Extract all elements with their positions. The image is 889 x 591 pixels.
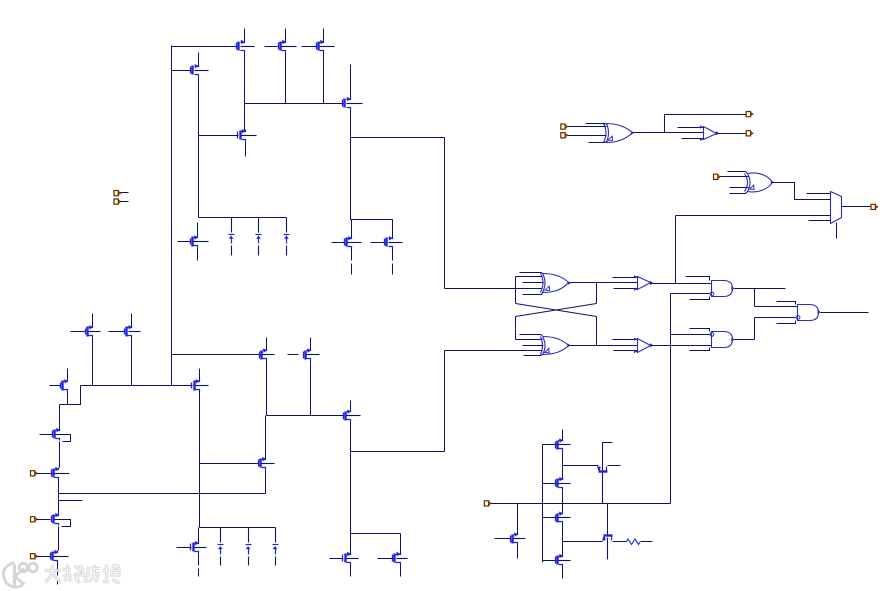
wire M16 source down through bus H6 to bus H8 bbox=[350, 422, 352, 534]
pin P7 bbox=[561, 133, 568, 138]
wire feedback column vertical bbox=[670, 294, 672, 504]
wire Ms3 gate bbox=[543, 517, 557, 519]
transistor M16 bbox=[344, 410, 361, 422]
wire A3 input3 bbox=[755, 317, 796, 319]
wire M19 source to M20 drain bbox=[58, 527, 60, 551]
wire latch right column upper bbox=[596, 283, 598, 304]
wire A3 input1 stub bbox=[777, 302, 796, 305]
wire H1 to M1 gate bbox=[172, 46, 238, 48]
wire M20 source dash bbox=[57, 579, 59, 585]
wire M6 drain stub bbox=[350, 65, 352, 98]
and-gate A1 bbox=[710, 281, 735, 297]
transistor M19 bbox=[52, 513, 60, 526]
wire U5 output to and gate A2 bbox=[651, 345, 712, 347]
wire M21 source stub bbox=[198, 554, 200, 566]
wire U7 output jog to mux bbox=[773, 183, 831, 200]
mos-cap C3 bbox=[284, 218, 290, 256]
transistor M3 bbox=[317, 40, 335, 53]
wire M14 source jog to bus H4 bbox=[68, 386, 81, 405]
wire U8 input4 stub bbox=[809, 220, 831, 222]
wire Ms5 right lead stub bbox=[608, 465, 621, 467]
wire vertical to pair bus bbox=[350, 138, 352, 220]
transistor M10 bbox=[86, 325, 101, 337]
wire M8 drain from pair bus bbox=[351, 220, 353, 238]
transistor Ms5 rotated bbox=[597, 466, 608, 504]
transistor M7 bbox=[191, 235, 209, 247]
wire M12 source to bus H5 bbox=[266, 361, 268, 416]
wire M4 gate from V1 bbox=[172, 70, 192, 72]
wire M16 drain stub bbox=[350, 401, 352, 410]
or-gate U2-bottom-OR bbox=[541, 337, 571, 355]
wire bus H5 bbox=[267, 415, 344, 417]
wire M22 drain up to bus H5 bbox=[265, 416, 267, 459]
wire M4 source V2 down to bus H3 bbox=[198, 77, 200, 218]
wire M9 source stub bbox=[392, 249, 394, 261]
wire M18 source down to bus H9 and M19 drain bbox=[58, 480, 60, 514]
mos-cap C6 bbox=[273, 528, 279, 566]
wire bus H9 long bottom bbox=[59, 493, 266, 495]
wire M17 drain up to jog bbox=[59, 405, 61, 430]
pin P2 bbox=[114, 199, 121, 204]
wire mux input3 long bbox=[676, 215, 831, 217]
transistor M5 bbox=[238, 129, 257, 142]
pin P5 bbox=[31, 554, 38, 559]
transistor M15 bbox=[192, 379, 209, 391]
transistor M20 bbox=[51, 550, 69, 563]
wire U3 input4 bbox=[589, 142, 607, 143]
transistor M11 bbox=[125, 325, 141, 337]
or-gate U1-top-OR bbox=[541, 274, 571, 293]
mux U8 bbox=[831, 192, 842, 224]
wire M2 drain stub bbox=[285, 29, 287, 41]
wire V4 up from bus H6 bbox=[444, 351, 446, 452]
wire M10 drain stub bbox=[92, 314, 94, 327]
wire A1 input3 from feedback column bbox=[671, 293, 710, 295]
wire M23 source stub bbox=[350, 565, 352, 577]
wire U7 input1 bbox=[728, 172, 748, 174]
wire U2 input2 feedback bbox=[516, 339, 543, 341]
or-gate U3-top-OR bbox=[604, 124, 634, 143]
wire latch bottom input long bbox=[445, 350, 543, 352]
wire vertical from U4 output up to mux input bbox=[675, 216, 677, 284]
wire M11 gate dash bbox=[109, 331, 125, 333]
wire Ms4 source stub bbox=[562, 567, 564, 579]
buffer U4 bbox=[613, 275, 654, 291]
wire M21 gate dash bbox=[177, 547, 192, 549]
wire U2 input3 bbox=[523, 345, 544, 347]
wire M21 drain from bus H7 bbox=[198, 528, 200, 543]
wire latch left column upper bbox=[515, 277, 517, 304]
buffer U6 bbox=[678, 125, 720, 140]
wire M9 drain from pair bus bbox=[392, 220, 394, 238]
wire M11 source to bus H4 bbox=[131, 338, 133, 386]
transistor M6 bbox=[343, 97, 363, 110]
transistor M25 bbox=[511, 532, 526, 544]
wire M20 source stub bbox=[57, 563, 59, 576]
wire M17 gate dash bbox=[40, 434, 53, 436]
pin P8 bbox=[746, 112, 753, 117]
wire bus H6 bbox=[351, 451, 445, 453]
wire M10 source to bus H4 bbox=[92, 338, 94, 386]
wire M19 bulk jog rectangle bbox=[55, 520, 71, 527]
wire M14 drain stub bbox=[67, 369, 69, 381]
wire U3 input1 bbox=[586, 124, 607, 125]
wire U2 input1 bbox=[520, 335, 543, 336]
wire latch cross diagonal A bbox=[516, 304, 597, 317]
wire M3 source to bus H2 bbox=[323, 53, 325, 104]
wire latch right column lower bbox=[596, 317, 598, 346]
wire Ms1 source chain bbox=[562, 451, 564, 479]
pin P1 bbox=[114, 191, 121, 196]
wire A2 input4 stub bbox=[690, 348, 710, 351]
wire U3 input3 from pin bbox=[567, 135, 607, 137]
wire M24 drain from bus H8 bbox=[400, 534, 402, 554]
watermark logo bbox=[3, 563, 37, 588]
wire U1 output to buffer U4 bbox=[570, 282, 638, 284]
wire bus H8 bbox=[351, 533, 401, 535]
transistor M1 bbox=[237, 40, 255, 53]
wire jog horizontal bbox=[60, 404, 68, 406]
wire Ms4 gate bbox=[543, 560, 557, 562]
wire to pin P8 bbox=[665, 114, 747, 116]
wire M2 gate dash bbox=[265, 46, 278, 48]
transistor M2 bbox=[279, 40, 297, 53]
wire P1 stub bbox=[121, 192, 129, 194]
transistor Ms4 bbox=[556, 554, 571, 567]
wire M8 source stub bbox=[351, 249, 353, 261]
transistor M12 bbox=[260, 348, 275, 360]
wire branch to Ms6 bbox=[563, 541, 603, 543]
wire A1 input4 stub bbox=[690, 297, 710, 300]
wire M13 drain stub bbox=[310, 338, 312, 349]
watermark text bbox=[45, 564, 121, 584]
wire P2 stub bbox=[121, 201, 129, 203]
wire P5 to M20 gate bbox=[37, 556, 51, 558]
wire R1 right lead bbox=[641, 541, 653, 543]
transistor M13 bbox=[304, 348, 320, 360]
wire U4 output to and gate A1 bbox=[651, 283, 712, 285]
mos-cap C2 bbox=[256, 218, 262, 256]
wire M25 gate bbox=[495, 538, 511, 540]
wire bus H2 bbox=[245, 103, 344, 105]
transistor Ms1 bbox=[556, 438, 571, 450]
wire M7 gate dash bbox=[178, 241, 191, 243]
wire U6 output to pin P8b bbox=[717, 133, 747, 135]
wire M22 gate from M15 source column bbox=[200, 463, 259, 465]
wire U2 input5 bbox=[524, 355, 543, 356]
wire A3 input4 stub bbox=[777, 321, 796, 324]
wire M3 gate dash bbox=[302, 46, 317, 48]
wire A1 input1 stub bbox=[686, 277, 710, 281]
xor-gate U7 bbox=[745, 173, 775, 192]
wire Ms1 gate bbox=[543, 444, 557, 446]
wire latch top input long bbox=[445, 288, 543, 290]
wire U1 input2 feedback bbox=[516, 276, 543, 278]
wire U7 input2 from pin P9 bbox=[720, 176, 749, 178]
wire M24 source stub bbox=[400, 565, 402, 577]
transistor M23 bbox=[343, 552, 359, 565]
wire Ms6 left lead bbox=[563, 541, 603, 543]
wire M13 source to bus H5 bbox=[310, 361, 312, 416]
wire M1 drain stub bbox=[244, 29, 246, 41]
wire M10 gate dash bbox=[71, 331, 86, 333]
wire U7 input4 bbox=[730, 192, 748, 194]
wire M15 drain stub bbox=[199, 369, 201, 381]
wire A2 input1 stub bbox=[690, 329, 710, 332]
wire Ms2 source chain bbox=[562, 490, 564, 514]
mos-cap C4 bbox=[218, 528, 224, 566]
wire M15 source down to bus H7 bbox=[199, 391, 201, 528]
pin P3 bbox=[31, 471, 38, 476]
wire M5 gate from V2 bbox=[199, 135, 239, 137]
wire M14 gate dash bbox=[50, 385, 61, 387]
wire M9 gate dash bbox=[371, 242, 386, 244]
wire M6b bus down from junction bbox=[351, 219, 393, 221]
wire Ms6 right lead to resistor bbox=[613, 541, 627, 543]
wire Ms3 source chain bbox=[562, 524, 564, 556]
wire M21 source dash bbox=[198, 569, 200, 577]
wire stub under bus H9 bbox=[59, 500, 83, 502]
wire M3 drain stub bbox=[323, 29, 325, 41]
wire A2 output bbox=[735, 339, 755, 341]
wire M6 source down then right to V3 bbox=[351, 110, 445, 138]
pin P6 bbox=[561, 124, 568, 129]
pin P9 bbox=[714, 174, 721, 179]
wire M13 gate dash bbox=[288, 354, 299, 356]
wire M24 gate dash bbox=[378, 558, 394, 560]
wire U3 input2 from pin bbox=[567, 126, 607, 128]
wire U3 output up bbox=[664, 115, 666, 133]
wire U8 select stub bbox=[836, 223, 838, 239]
wire Ms1 drain stub bbox=[562, 430, 564, 441]
wire M1 source to M5 drain, junction with H2 bbox=[244, 53, 246, 131]
transistor M17 bbox=[53, 428, 61, 441]
wire bus H4 bbox=[81, 385, 193, 387]
pin P4 bbox=[31, 517, 38, 522]
wire M25 drain up to P11 line bbox=[517, 504, 519, 535]
wire P3 to M18 gate bbox=[37, 473, 53, 475]
wire M25 source stub bbox=[517, 545, 519, 559]
transistor M14 bbox=[61, 379, 69, 391]
wire U3 output to buffer U6 bbox=[665, 132, 704, 134]
transistor M9 bbox=[385, 236, 403, 248]
wire A1 output down bbox=[754, 289, 756, 307]
transistor Ms3 bbox=[556, 512, 571, 524]
wire stack gate bus junction to P11 line bbox=[542, 503, 544, 505]
wire A2 output up bbox=[754, 318, 756, 340]
wire M8 gate dash bbox=[332, 242, 345, 244]
wire M23 gate dash bbox=[330, 558, 344, 560]
pin P11 bbox=[484, 501, 491, 506]
wire U7 input3 bbox=[730, 187, 749, 189]
wire A3 input2 bbox=[755, 306, 798, 308]
wire M11 drain stub bbox=[131, 314, 133, 327]
wire A3 output bbox=[821, 312, 869, 314]
wire latch cross diagonal B bbox=[516, 304, 597, 317]
wire U1 input3 bbox=[523, 282, 544, 284]
wire stack gate bus bbox=[542, 445, 544, 563]
wire P11 long line bbox=[491, 503, 671, 505]
transistor Ms2 bbox=[556, 477, 571, 490]
wire U3 output bbox=[633, 132, 665, 134]
wire A1 output bbox=[735, 288, 786, 290]
wire M7 source stub bbox=[197, 248, 199, 261]
wire A2 input2 from feedback column bbox=[671, 334, 710, 336]
transistor M24 bbox=[393, 552, 408, 565]
transistor Ms6 rotated bbox=[602, 536, 613, 560]
wire M5 source stub bbox=[245, 142, 247, 157]
wire M2 source to bus H2 bbox=[285, 53, 287, 104]
wire U2 output to buffer U5 bbox=[569, 345, 638, 347]
wire U1 input5 bbox=[523, 293, 543, 295]
mos-cap C1 bbox=[229, 218, 235, 256]
mos-cap C5 bbox=[246, 528, 252, 566]
wire M8 source dash bbox=[351, 264, 353, 275]
wire latch left column lower bbox=[515, 317, 517, 340]
wire V3 down to latch input bbox=[444, 138, 446, 289]
wire M23 drain from bus H8 bbox=[350, 534, 352, 554]
pin P8b bbox=[746, 131, 753, 136]
and-gate A2 bbox=[710, 332, 735, 348]
wire M9 source dash bbox=[392, 264, 394, 275]
pin P10 bbox=[871, 204, 878, 209]
resistor R1 bbox=[627, 539, 641, 545]
wire M17 source to M18 drain bbox=[59, 442, 61, 468]
wire P4 to M19 gate bbox=[37, 519, 51, 521]
wire U8 output to pin P10 bbox=[842, 206, 871, 208]
transistor M22 bbox=[259, 457, 275, 470]
wire bus H3 bbox=[199, 217, 287, 219]
transistor M8 bbox=[345, 236, 362, 248]
buffer U5 bbox=[613, 338, 654, 354]
wire M4 drain stub bbox=[198, 53, 200, 65]
wire Ms5 gate jog bbox=[603, 443, 613, 471]
transistor M18 bbox=[52, 467, 70, 480]
wire branch to Ms5 bbox=[563, 465, 599, 467]
wire M12 drain stub bbox=[266, 338, 268, 349]
wire Ms6 gate from P11 line bbox=[607, 504, 609, 535]
transistor M21 bbox=[191, 541, 207, 554]
wire M7 drain to bus H3 bbox=[197, 223, 199, 237]
wire Ms2 gate bbox=[543, 483, 557, 485]
wire U1 input1 bbox=[520, 273, 543, 274]
wire M22 source down to bus H9 bbox=[265, 470, 267, 494]
node VDD-rail vertical V1 bbox=[171, 46, 173, 386]
wire M12 gate from V1 bbox=[172, 354, 261, 356]
wire bus H7 bbox=[200, 527, 276, 529]
wire M17 bulk jog rectangle bbox=[56, 435, 71, 442]
wire U8 input2 stub bbox=[807, 193, 831, 195]
and-gate A3 bbox=[796, 305, 821, 321]
transistor M4 bbox=[191, 64, 209, 77]
